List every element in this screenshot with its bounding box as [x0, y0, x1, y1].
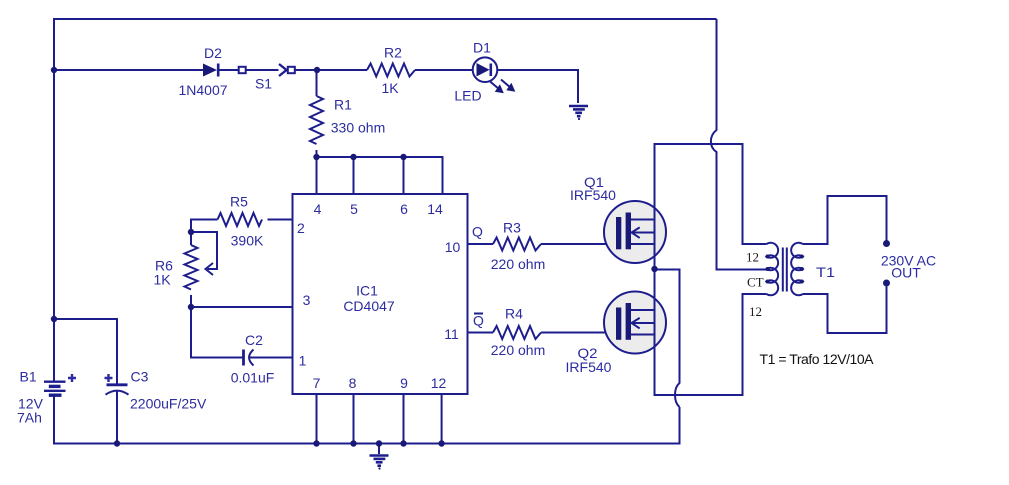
svg-text:10: 10	[445, 239, 461, 255]
svg-text:390K: 390K	[231, 233, 264, 249]
svg-text:T1 = Trafo 12V/10A: T1 = Trafo 12V/10A	[760, 351, 875, 367]
svg-text:1N4007: 1N4007	[178, 82, 227, 98]
svg-text:330 ohm: 330 ohm	[331, 120, 385, 136]
svg-text:R2: R2	[384, 45, 402, 61]
svg-text:OUT: OUT	[891, 265, 921, 281]
svg-text:2: 2	[297, 220, 305, 236]
svg-text:12: 12	[746, 250, 759, 265]
svg-text:C2: C2	[245, 332, 263, 348]
svg-text:LED: LED	[454, 88, 481, 104]
svg-text:T1: T1	[816, 264, 835, 280]
svg-text:CT: CT	[747, 275, 764, 290]
svg-text:D1: D1	[473, 40, 491, 56]
svg-text:220 ohm: 220 ohm	[491, 256, 545, 272]
svg-text:9: 9	[400, 375, 408, 391]
svg-text:IC1: IC1	[356, 283, 378, 299]
svg-text:7: 7	[313, 375, 321, 391]
svg-text:R1: R1	[334, 97, 352, 113]
svg-text:3: 3	[303, 292, 311, 308]
svg-text:Q: Q	[473, 313, 484, 329]
svg-text:14: 14	[427, 201, 443, 217]
svg-text:2200uF/25V: 2200uF/25V	[130, 396, 207, 412]
svg-text:IRF540: IRF540	[570, 187, 616, 203]
svg-text:1K: 1K	[381, 80, 399, 96]
svg-text:R3: R3	[503, 220, 521, 236]
svg-text:C3: C3	[131, 369, 149, 385]
svg-text:7Ah: 7Ah	[17, 410, 42, 426]
svg-text:11: 11	[444, 326, 459, 342]
svg-text:CD4047: CD4047	[343, 298, 395, 314]
svg-text:D2: D2	[204, 45, 222, 61]
svg-text:4: 4	[314, 201, 322, 217]
svg-text:0.01uF: 0.01uF	[231, 370, 275, 386]
svg-text:IRF540: IRF540	[566, 359, 612, 375]
svg-text:1: 1	[299, 353, 307, 369]
svg-text:12: 12	[749, 304, 762, 319]
svg-text:12: 12	[431, 375, 447, 391]
svg-text:R4: R4	[505, 306, 523, 322]
svg-text:5: 5	[350, 201, 358, 217]
svg-text:220 ohm: 220 ohm	[491, 342, 545, 358]
svg-text:Q: Q	[472, 224, 483, 240]
svg-text:1K: 1K	[153, 272, 171, 288]
svg-text:S1: S1	[255, 76, 272, 92]
svg-text:6: 6	[400, 201, 408, 217]
svg-text:B1: B1	[20, 369, 37, 385]
svg-text:R5: R5	[230, 194, 248, 210]
svg-text:8: 8	[349, 375, 357, 391]
